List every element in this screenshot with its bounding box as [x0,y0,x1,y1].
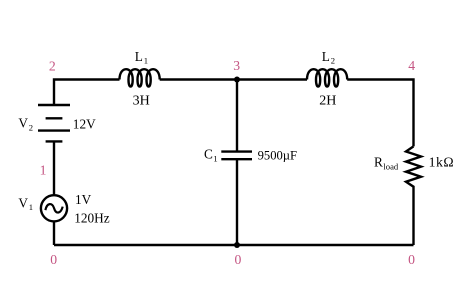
svg-text:3H: 3H [133,94,150,109]
svg-text:0: 0 [50,252,57,267]
svg-text:2: 2 [29,122,33,132]
svg-text:1V: 1V [75,192,92,207]
svg-text:load: load [383,161,398,171]
svg-text:1kΩ: 1kΩ [429,155,455,170]
svg-text:0: 0 [235,252,242,267]
svg-text:2: 2 [49,59,56,74]
svg-text:2H: 2H [319,94,336,109]
svg-text:0: 0 [408,252,415,267]
svg-text:V: V [18,116,28,131]
svg-text:L: L [135,49,143,64]
svg-text:12V: 12V [73,117,96,132]
svg-text:V: V [18,195,28,210]
svg-text:1: 1 [29,202,33,212]
svg-text:C: C [204,147,213,162]
svg-text:R: R [374,155,383,170]
svg-text:L: L [322,49,330,64]
svg-text:120Hz: 120Hz [74,210,110,225]
svg-text:2: 2 [331,55,335,65]
svg-text:3: 3 [233,58,240,73]
svg-text:1: 1 [213,154,217,164]
svg-text:4: 4 [408,58,415,73]
svg-text:1: 1 [40,162,47,177]
svg-text:1: 1 [144,55,148,65]
svg-text:9500µF: 9500µF [258,149,297,163]
